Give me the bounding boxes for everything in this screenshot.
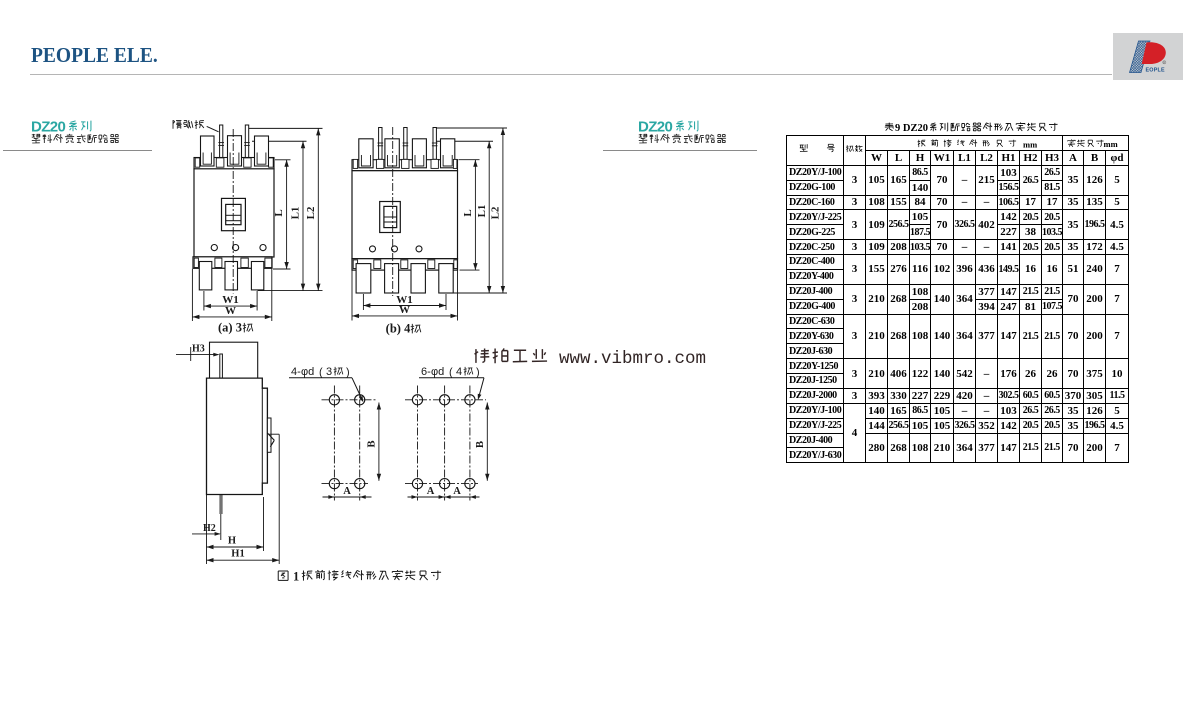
svg-text:W: W [399,304,410,316]
dimension table [786,135,1129,463]
svg-text:mm: mm [1023,139,1037,149]
header rule [30,74,1112,75]
svg-text:H: H [228,535,236,546]
fig-b L dimension [459,159,480,161]
left heading rule [3,150,152,152]
svg-text:mm: mm [1104,139,1118,149]
holes3 circles [329,395,339,405]
svg-text:B: B [475,441,486,448]
svg-text:(: ( [449,366,453,378]
fig-a top strip [194,158,274,170]
svg-text:6-: 6- [421,366,431,378]
svg-text:3: 3 [326,366,332,378]
fig-a arc plate bars [220,125,223,159]
holes4 label underline and leader [419,377,484,379]
svg-text:(: ( [319,366,323,378]
holes3 B dimension [378,403,380,481]
figure 1 caption [278,571,288,580]
fig-a W1 dimension [203,291,205,311]
side bottom pin [219,495,221,515]
svg-text:H2: H2 [203,523,216,534]
svg-text:A: A [453,486,461,497]
header: model [800,144,808,151]
side terminal lug [267,418,271,452]
fig-a label arc plate (ge hu ban) [173,120,182,129]
holes3 A dimension [323,496,372,498]
svg-text:DZ20: DZ20 [31,119,66,136]
svg-text:4-: 4- [291,366,301,378]
side handle bar [220,354,223,378]
fig-a pole circles [211,245,217,251]
fig-b top strip slots [353,159,357,168]
svg-text:φd: φd [431,366,444,378]
holes4 centerlines [417,386,419,501]
fig-b top strip [352,160,458,171]
fig-b handle [380,202,401,233]
fig-b pole circles [370,246,376,252]
svg-text:): ) [476,366,480,378]
fig-b bottom terminals [356,264,371,293]
fig-a L1 dimension [302,141,304,290]
svg-text:(b) 4: (b) 4 [386,322,411,336]
svg-text:DZ20: DZ20 [638,119,673,136]
svg-text:L2: L2 [490,206,502,219]
fig-b bottom strip slots [353,260,357,269]
svg-text:φd: φd [301,366,314,378]
fig-a bottom strip slots [194,258,198,267]
fig-a top strip slots [195,158,200,167]
P logo red bowl [1142,42,1166,64]
side top escutcheon [210,342,258,378]
fig-a W dimension [191,269,193,321]
table title [885,123,894,131]
registered mark [1163,61,1166,64]
fig-b terminal inner lines [361,155,370,166]
svg-text:L1: L1 [290,207,302,220]
svg-text:L: L [273,209,285,216]
watermark [475,348,490,362]
svg-text:H1: H1 [231,549,244,560]
header: front dims [918,140,926,147]
fig-b W dimension [351,271,353,321]
svg-text:4: 4 [456,366,462,378]
holes4 circles [412,395,422,405]
fig-a top extension line L1 [252,140,307,142]
header: poles [846,145,853,152]
header: mount dims [1068,139,1076,146]
holes4 A dimensions [408,496,480,498]
svg-text:W: W [225,305,236,317]
side H1 dimension [278,434,280,564]
fig-a body [194,169,274,257]
right subheading [639,134,647,143]
fig-b top extension line L1 [435,140,493,142]
fig-a terminal inner lines [203,153,211,165]
fig-a centerline [232,129,234,294]
svg-text:H3: H3 [192,344,205,355]
fig-b W1 dimension [362,294,364,310]
corner logo box [1113,33,1183,80]
fig-a L dimension [275,159,291,161]
header logo text PEOPLE ELE. [31,45,158,68]
svg-text:L: L [462,209,474,216]
svg-text:B: B [367,440,378,447]
fig-b bottom extension line [446,292,507,294]
fig-a handle [222,198,246,230]
svg-text:www.vibmro.com: www.vibmro.com [559,349,706,369]
fig-b bottom strip [352,259,458,270]
holes3 centerlines [333,386,335,501]
left subheading [32,134,40,143]
fig-a bottom strip [193,257,272,269]
fig-b body [352,171,458,259]
svg-text:L1: L1 [476,205,488,218]
svg-text:9 DZ20: 9 DZ20 [895,123,928,134]
right heading rule [603,150,757,152]
fig-a top extension line L2 [246,127,323,129]
holes3 label underline and leader [289,377,352,379]
svg-text:A: A [427,486,435,497]
fig-b top terminals [359,139,373,168]
side lug connector line [269,433,279,435]
fig-a L2 dimension [317,128,319,290]
side H dimension [263,497,265,551]
svg-text:A: A [343,486,351,497]
svg-text:(a) 3: (a) 3 [218,321,242,335]
fig-b L2 dimension [502,128,504,293]
holes4 B dimension [486,403,488,481]
fig-b L1 dimension [488,141,490,293]
side inner face line [261,388,263,483]
fig-b centerline [392,127,394,296]
svg-text:): ) [346,366,350,378]
side body outline [207,378,268,494]
side left extension [206,495,208,565]
fig-a top terminals [201,136,215,166]
fig-b arc plate bars [379,128,382,160]
svg-text:L2: L2 [305,206,317,219]
fig-b top extension line L2 [433,127,507,129]
fig-a bottom extension line [258,290,323,292]
fig-a bottom terminals [199,262,212,290]
svg-text:1: 1 [293,570,299,584]
